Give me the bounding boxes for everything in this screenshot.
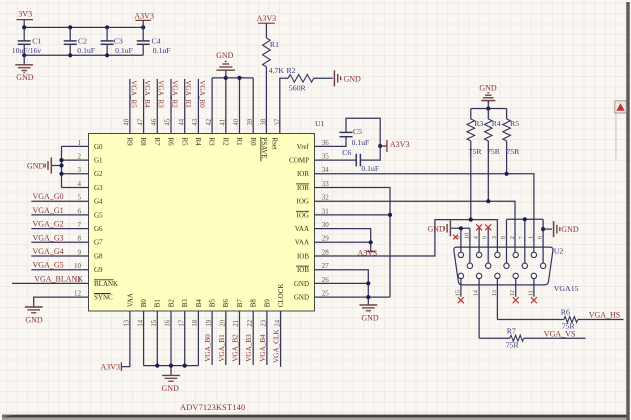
svg-text:R5: R5 [510, 119, 519, 128]
svg-text:R8: R8 [139, 138, 147, 147]
svg-text:VGA_G3: VGA_G3 [33, 233, 64, 242]
U1 left pin numbers [74, 139, 82, 298]
svg-text:C1: C1 [32, 37, 41, 46]
wire VGA pin 9 stub no-connect [487, 228, 489, 266]
connector U2 holes [458, 252, 546, 278]
ground GND below pin 12 [25, 307, 43, 325]
resistor R6 75R [561, 307, 578, 330]
junction top rail at C2 [68, 25, 72, 29]
svg-text:VGA_VS: VGA_VS [544, 329, 576, 338]
svg-text:VGA_B4: VGA_B4 [259, 334, 267, 362]
wire+net label VGA_R2 pin 45 [170, 79, 178, 134]
svg-text:4.7K: 4.7K [269, 66, 285, 75]
wire+net label VGA_B4 pin 23 [259, 311, 267, 365]
svg-text:27: 27 [322, 262, 330, 270]
svg-text:B0: B0 [140, 299, 148, 308]
junction GND stub [59, 163, 63, 167]
junction pin 26 [366, 281, 370, 285]
svg-text:15: 15 [454, 290, 461, 296]
svg-text:3: 3 [78, 166, 82, 174]
IC U1 ADV7123KST140 body [89, 119, 325, 311]
U1 top pin numbers [124, 118, 282, 125]
junction at pin 40 [237, 76, 241, 80]
svg-text:VGA_G2: VGA_G2 [33, 220, 64, 229]
resistor R5 75R [503, 109, 520, 157]
wire+net label VGA_G5 pin 10 [31, 261, 88, 270]
svg-text:IOB: IOB [297, 266, 309, 274]
junction pin 15 bar [155, 364, 159, 368]
junction at pin 41 [224, 76, 228, 80]
no-ERC mark pin 12 [513, 297, 519, 303]
svg-text:VGA_R3: VGA_R3 [157, 80, 165, 108]
error marker icon [615, 101, 626, 113]
ground GND left of pins 1-4 [50, 158, 52, 174]
ground GND right of VGA [553, 221, 555, 237]
wire+net label VGA_R5 pin 48 [129, 79, 137, 134]
wire right gnd rail pins 8,7,6 [507, 218, 544, 220]
svg-text:1: 1 [527, 236, 534, 239]
svg-text:40: 40 [233, 118, 240, 125]
wire VGA pin 13 down [496, 279, 498, 320]
wire VGA pin 12 stub no-connect [515, 279, 517, 297]
svg-text:VGA_CLK: VGA_CLK [273, 329, 281, 363]
junction IOR at R5 [505, 172, 509, 176]
svg-text:SYNC: SYNC [94, 294, 113, 302]
wire VGA pin 4 stub no-connect [478, 228, 480, 255]
junction pin 3 bus [59, 172, 63, 176]
svg-text:75R: 75R [506, 341, 520, 350]
power port A3V3 at VAA [358, 248, 378, 257]
wire+net label VGA_R4 pin 47 [143, 79, 151, 134]
wire R1 to pin 38 PSAVE [265, 67, 267, 134]
svg-text:46: 46 [151, 118, 158, 125]
resistor R2 560R [287, 66, 314, 93]
svg-text:C6: C6 [342, 148, 351, 157]
svg-text:IOR: IOR [297, 184, 309, 192]
wire pin 36 Vref to C5 [315, 137, 347, 146]
wire+net label VGA_R1 pin 44 [184, 79, 192, 134]
junction pin 2 bus [59, 158, 63, 162]
svg-text:75R: 75R [506, 147, 520, 156]
ground GND below chip [162, 375, 180, 393]
svg-text:R3: R3 [208, 138, 216, 147]
svg-text:R5: R5 [180, 138, 188, 147]
no-ERC mark pin 9 [485, 224, 491, 230]
wire pin 33 to vertical gnd bus [315, 188, 391, 298]
window right border [616, 2, 630, 420]
svg-text:IOR: IOR [297, 170, 309, 178]
wire R4 lead down to IOG node [487, 141, 489, 201]
svg-text:560R: 560R [289, 84, 307, 93]
wire pin 37 Rset up to R2 [280, 78, 288, 133]
svg-text:8: 8 [78, 235, 82, 243]
resistor R7 75R [506, 327, 524, 350]
capacitor C3 [101, 27, 133, 55]
U1 right pin numbers [322, 139, 330, 298]
svg-text:VAA: VAA [295, 225, 309, 233]
svg-text:R4: R4 [492, 119, 501, 128]
svg-text:G4: G4 [94, 198, 103, 206]
svg-text:1: 1 [78, 139, 82, 147]
svg-text:34: 34 [322, 166, 330, 174]
svg-text:A3V3: A3V3 [134, 11, 154, 20]
wire C5 top loop to A3V3 node [346, 118, 380, 146]
junction bottom rail at C2 [68, 53, 72, 57]
svg-text:38: 38 [261, 118, 268, 125]
svg-text:U2: U2 [554, 247, 564, 256]
wire VGA pin 7 riser [524, 219, 526, 265]
svg-text:35: 35 [322, 153, 330, 161]
svg-text:R2: R2 [287, 66, 296, 75]
power port A3V3 right of C5 [380, 140, 409, 152]
svg-text:B4: B4 [195, 299, 203, 308]
svg-text:VGA_G1: VGA_G1 [33, 206, 64, 215]
capacitor C2 [64, 27, 95, 55]
wire net IOB pin 28 to VGA pin 3 [315, 220, 498, 256]
svg-text:31: 31 [322, 207, 330, 215]
svg-text:A3V3: A3V3 [390, 140, 410, 149]
svg-text:26: 26 [322, 276, 330, 284]
svg-text:3: 3 [491, 236, 498, 239]
svg-text:C3: C3 [114, 37, 123, 46]
ground GND right of R2 [333, 70, 335, 86]
junction pin 5 gnd [459, 226, 463, 230]
svg-text:GND: GND [16, 73, 34, 82]
svg-text:VGA_G0: VGA_G0 [33, 192, 64, 201]
wire+net label VGA_B1 pin 20 [218, 311, 226, 365]
svg-text:VGA_R0: VGA_R0 [198, 80, 206, 108]
wire VGA pin 6 riser [542, 219, 544, 265]
svg-text:0.1uF: 0.1uF [153, 46, 171, 55]
svg-text:B3: B3 [181, 299, 189, 308]
junction IOB at R3 [469, 218, 473, 222]
U1 left pin names [94, 143, 118, 302]
wire A3V3 node down to C6 [360, 146, 380, 160]
svg-text:R9: R9 [126, 138, 134, 147]
wire net IOG pin 32 to VGA pin 2 [315, 201, 516, 255]
wire R2 to GND [314, 77, 333, 79]
svg-text:GND: GND [27, 162, 45, 171]
junction top rail at C4/A3V3 [141, 25, 145, 29]
svg-text:10: 10 [463, 233, 470, 239]
svg-text:75R: 75R [487, 147, 501, 156]
junction pin 17 bar [183, 364, 187, 368]
junction pin 7 gnd [523, 217, 527, 221]
wire R3 lead down to IOB node [470, 141, 472, 220]
wire+net label VGA_G0 pin 5 [31, 192, 88, 201]
svg-text:B1: B1 [154, 299, 162, 308]
wire pins 30,29 VAA [315, 229, 371, 252]
svg-text:13: 13 [491, 290, 498, 296]
svg-text:A3V3: A3V3 [257, 14, 277, 23]
svg-text:VGA_B1: VGA_B1 [218, 334, 226, 362]
svg-text:R6: R6 [561, 307, 570, 316]
svg-text:47: 47 [137, 118, 144, 125]
svg-text:G2: G2 [94, 170, 103, 178]
capacitor C5 0.1uF [340, 127, 370, 147]
svg-text:G6: G6 [94, 225, 103, 233]
wire pin 12 SYNC to GND [34, 297, 89, 307]
wire VGA pin 15 stub no-connect [460, 279, 462, 297]
wire+net label VGA_CLK pin 24 [273, 311, 281, 367]
junction pin 29 [369, 240, 373, 244]
svg-text:B7: B7 [236, 299, 244, 308]
ground GND above chip [216, 51, 235, 78]
VGA connector pin numbers bottom [454, 289, 534, 296]
svg-text:0.1uF: 0.1uF [115, 46, 133, 55]
wire net IOR pin 34 to VGA pin 1 [315, 174, 534, 255]
capacitor C1 [12, 27, 42, 55]
svg-text:10uF/16v: 10uF/16v [12, 46, 42, 55]
junction pin 6 gnd [541, 227, 545, 231]
svg-text:VGA_R5: VGA_R5 [129, 80, 137, 108]
wire+net label VGA_G3 pin 8 [31, 233, 88, 242]
svg-text:G9: G9 [94, 266, 103, 274]
svg-text:45: 45 [165, 118, 172, 125]
wire+net label VGA_B3 pin 22 [245, 311, 253, 365]
svg-text:5: 5 [454, 236, 461, 239]
svg-text:R2: R2 [221, 138, 229, 147]
wire R3-R5 top rail [471, 108, 507, 110]
svg-text:R0: R0 [249, 138, 257, 147]
resistor R1 4.7K [263, 38, 285, 75]
wire+net label VGA_R3 pin 46 [157, 79, 165, 134]
wire VGA pin 11 stub no-connect [533, 279, 535, 297]
svg-text:R7: R7 [507, 327, 516, 336]
svg-text:VGA_G4: VGA_G4 [33, 247, 64, 256]
svg-text:9: 9 [78, 248, 82, 256]
svg-text:VGA_R1: VGA_R1 [184, 80, 192, 108]
svg-text:4: 4 [78, 180, 82, 188]
wire pin 25 to bus corner [315, 296, 391, 298]
svg-text:GND: GND [294, 280, 309, 288]
wire R5 lead down to IOR node [506, 141, 508, 174]
svg-text:39: 39 [247, 118, 254, 125]
svg-text:VAA: VAA [126, 293, 134, 307]
wire+net label VGA_HS [578, 311, 624, 320]
no-ERC mark pin 4 [476, 224, 482, 230]
svg-text:33: 33 [322, 180, 330, 188]
svg-text:R7: R7 [153, 138, 161, 147]
ground GND above R3-R5 [479, 83, 497, 108]
svg-text:6: 6 [537, 236, 544, 239]
svg-text:GND: GND [162, 384, 180, 393]
resistor R4 75R [485, 109, 501, 157]
svg-text:CLOCK: CLOCK [277, 284, 285, 308]
svg-text:B9: B9 [263, 299, 271, 308]
svg-text:B8: B8 [250, 299, 258, 308]
svg-text:44: 44 [178, 118, 185, 125]
wire+net label VGA_G2 pin 7 [31, 220, 88, 229]
svg-text:R1: R1 [235, 138, 243, 147]
svg-text:14: 14 [473, 289, 480, 296]
junction IOG at R4 [486, 199, 490, 203]
wire left GND to pins 5,10 [451, 227, 470, 229]
svg-text:32: 32 [322, 194, 330, 202]
svg-text:U1: U1 [315, 119, 325, 128]
wire pin 13 to R6 [497, 319, 564, 321]
svg-text:42: 42 [206, 118, 213, 125]
no-ERC mark near pin 5 [453, 235, 458, 240]
ground GND left of VGA [449, 220, 451, 236]
svg-text:VGA_G5: VGA_G5 [33, 261, 64, 270]
svg-text:VAA: VAA [295, 239, 309, 247]
connector U2 body [454, 247, 579, 293]
junction top rail at C1 [22, 25, 26, 29]
power port A3V3 bottom [100, 362, 121, 371]
svg-text:COMP: COMP [289, 157, 309, 165]
wire+net label VGA_BLANK pin 11 [12, 274, 89, 283]
svg-text:28: 28 [322, 248, 330, 256]
svg-text:VGA_B2: VGA_B2 [232, 334, 240, 362]
wire+net label VGA_B2 pin 21 [232, 311, 240, 365]
svg-text:9: 9 [482, 236, 489, 239]
wire+net label VGA_VS [524, 329, 586, 338]
wire VGA pin 10 riser [469, 228, 471, 265]
wire+net label VGA_B0 pin 19 [204, 311, 212, 365]
capacitor C6 0.1uF [342, 148, 379, 173]
svg-text:VGA_B0: VGA_B0 [204, 334, 212, 362]
svg-text:A3V3: A3V3 [100, 363, 120, 372]
resistor R3 75R [467, 109, 483, 157]
svg-text:VGA_HS: VGA_HS [589, 311, 621, 320]
svg-text:C2: C2 [78, 37, 87, 46]
wire top rail C1-C4 [24, 26, 143, 28]
svg-text:29: 29 [322, 235, 330, 243]
wire bottom rail C1-C4 [24, 54, 143, 56]
svg-text:41: 41 [220, 119, 227, 126]
wire pins 1-4 bus to GND [52, 146, 89, 187]
wire VGA pin 8 riser [506, 219, 508, 265]
wire pin 26 stub [315, 282, 369, 284]
svg-text:0.1uF: 0.1uF [77, 46, 95, 55]
svg-text:G7: G7 [94, 239, 103, 247]
svg-text:G8: G8 [94, 252, 103, 260]
svg-text:10: 10 [74, 262, 82, 270]
svg-text:0.1uF: 0.1uF [361, 164, 379, 173]
wire pin 35 COMP to C6 [315, 159, 357, 161]
svg-text:BLANK: BLANK [94, 280, 118, 288]
U1 bottom pin names [126, 284, 285, 308]
wire pins 14-18 gnd bar [144, 311, 199, 375]
junction pin 31 on bus [388, 213, 392, 217]
junction A3V3 node [378, 144, 382, 148]
svg-text:B5: B5 [209, 299, 217, 308]
wire to right GND port [543, 228, 552, 230]
wire+net label VGA_G1 pin 6 [31, 206, 88, 215]
wire pin 31 stub [315, 214, 391, 216]
svg-text:VGA_B3: VGA_B3 [245, 334, 253, 362]
svg-text:G3: G3 [94, 184, 103, 192]
svg-text:GND: GND [294, 294, 309, 302]
svg-text:B2: B2 [167, 299, 175, 308]
power port A3V3 above R1 [257, 14, 277, 38]
wire pin 27 down [315, 270, 369, 305]
svg-text:GND: GND [427, 224, 445, 233]
svg-text:2: 2 [509, 236, 516, 239]
svg-text:2: 2 [78, 153, 82, 161]
power port A3V3 top [134, 11, 154, 27]
svg-text:IOG: IOG [297, 198, 309, 206]
svg-text:ADV7123KST140: ADV7123KST140 [180, 403, 245, 412]
svg-text:Rset: Rset [271, 138, 279, 151]
svg-text:R3: R3 [474, 119, 483, 128]
junction pin 16 bar [169, 364, 173, 368]
ground GND below C1 [15, 55, 33, 82]
svg-text:11: 11 [527, 290, 534, 296]
svg-text:GND: GND [344, 74, 362, 83]
svg-text:IOG: IOG [297, 211, 309, 219]
junction pin 25 [366, 295, 370, 299]
svg-text:37: 37 [274, 118, 281, 125]
wire pin 13 VAA to A3V3 [121, 311, 129, 367]
junction bottom rail at C1 [22, 53, 26, 57]
svg-text:30: 30 [322, 221, 330, 229]
svg-text:C5: C5 [353, 127, 362, 136]
svg-text:12: 12 [509, 290, 516, 296]
svg-text:36: 36 [322, 139, 330, 147]
svg-text:GND: GND [479, 83, 497, 92]
junction bottom rail at C3 [105, 53, 109, 57]
wire VGA pin 5 riser [460, 228, 462, 255]
svg-text:B6: B6 [222, 299, 230, 308]
svg-text:48: 48 [124, 118, 131, 125]
svg-text:GND: GND [25, 316, 43, 325]
power port 3V3 [17, 9, 34, 27]
svg-text:3V3: 3V3 [18, 9, 32, 18]
svg-text:IOB: IOB [297, 252, 309, 260]
svg-text:G1: G1 [94, 157, 103, 165]
svg-text:R1: R1 [270, 40, 279, 49]
wire gnd bar above pins 42-39 [212, 78, 253, 134]
svg-text:GND: GND [216, 51, 234, 60]
svg-text:VGA15: VGA15 [554, 284, 579, 293]
junction top rail at C3 [105, 25, 109, 29]
svg-text:5: 5 [78, 194, 82, 202]
svg-text:0.1uF: 0.1uF [352, 138, 370, 147]
wire VGA pin 14 down [478, 279, 480, 338]
VGA connector pin numbers top [454, 233, 543, 239]
no-ERC mark pin 11 [531, 297, 537, 303]
junction gnd rail R4 [486, 106, 490, 110]
svg-text:C4: C4 [152, 37, 161, 46]
wire+net label VGA_G4 pin 9 [31, 247, 88, 256]
svg-text:43: 43 [192, 118, 199, 125]
svg-text:R6: R6 [167, 138, 175, 147]
svg-text:Vref: Vref [297, 143, 310, 151]
svg-text:25: 25 [322, 290, 330, 298]
ground GND below pin 25 [359, 305, 378, 323]
svg-text:7: 7 [78, 221, 82, 229]
svg-text:12: 12 [74, 290, 82, 298]
svg-text:8: 8 [500, 236, 507, 239]
no-ERC mark pin 15 [458, 297, 464, 303]
svg-text:GND: GND [361, 314, 379, 323]
wire+net label VGA_R0 pin 43 [198, 79, 206, 134]
wire pin 14 to R7 [479, 337, 510, 339]
capacitor C4 [137, 27, 171, 55]
U1 top pin names [126, 137, 279, 162]
svg-text:R4: R4 [194, 138, 202, 147]
svg-text:VGA_R4: VGA_R4 [143, 80, 151, 108]
svg-text:G5: G5 [94, 211, 103, 219]
svg-text:G0: G0 [94, 143, 103, 151]
svg-text:VGA_BLANK: VGA_BLANK [34, 274, 83, 283]
svg-text:VGA_R2: VGA_R2 [170, 80, 178, 108]
U1 right pin names [289, 143, 310, 302]
sheet bottom border bar [2, 415, 629, 418]
svg-text:GND: GND [561, 225, 579, 234]
